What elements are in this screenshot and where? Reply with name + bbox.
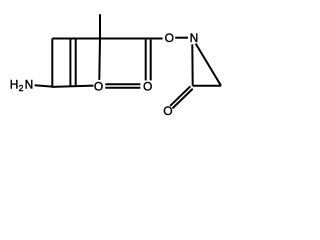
- svg-text:O: O: [143, 80, 152, 94]
- svg-text:O: O: [165, 31, 174, 45]
- svg-text:O: O: [94, 80, 103, 94]
- svg-text:O: O: [163, 104, 172, 118]
- svg-text:N: N: [190, 31, 199, 45]
